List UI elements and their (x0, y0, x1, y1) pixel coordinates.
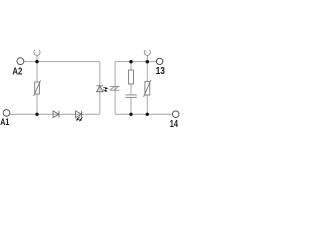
junction top RC (129, 60, 132, 63)
wire RC branch lower (130, 98, 132, 114)
svg-text:A2: A2 (12, 66, 22, 77)
terminal 13 (156, 58, 162, 64)
capacitor C (snubber) (125, 95, 137, 98)
clamp (test tap) above terminal 13 junction (144, 50, 150, 62)
wire output bottom line (115, 113, 172, 115)
wire A1 bottom line (10, 113, 100, 115)
resistor R (snubber) (129, 70, 134, 84)
svg-text:14: 14 (170, 119, 179, 130)
triac (opto output) (110, 86, 120, 90)
junction top V2 (146, 60, 149, 63)
wire A2 top line (24, 61, 100, 63)
wire RC branch upper (130, 62, 132, 95)
optocoupler LED (vertical, pointing up) (96, 86, 103, 92)
junction bottom RC (129, 113, 132, 116)
varistor V1 (input protection) (34, 80, 41, 96)
LED indicator D2 on A1 line (76, 111, 82, 118)
LED D2 emission arrows (77, 117, 83, 121)
svg-text:A1: A1 (0, 117, 9, 128)
varistor V2 (output protection) (144, 80, 151, 97)
terminal A2 (17, 58, 24, 65)
wire varistor V2 branch (146, 62, 148, 115)
diode D1 on A1 line (53, 111, 59, 118)
terminal A1 (3, 110, 10, 117)
optocoupler light arrows (103, 87, 107, 91)
wire varistor V1 branch (36, 62, 38, 115)
wire output top line (115, 61, 156, 63)
wire LED branch vertical (99, 62, 101, 115)
junction A1/V1 (35, 113, 38, 116)
wire triac branch vertical (114, 62, 116, 115)
svg-text:13: 13 (156, 66, 166, 77)
junction bottom V2 (146, 113, 149, 116)
clamp (test tap) above A2 junction (34, 50, 40, 62)
junction A2/V1 (35, 60, 38, 63)
terminal 14 (172, 111, 179, 118)
